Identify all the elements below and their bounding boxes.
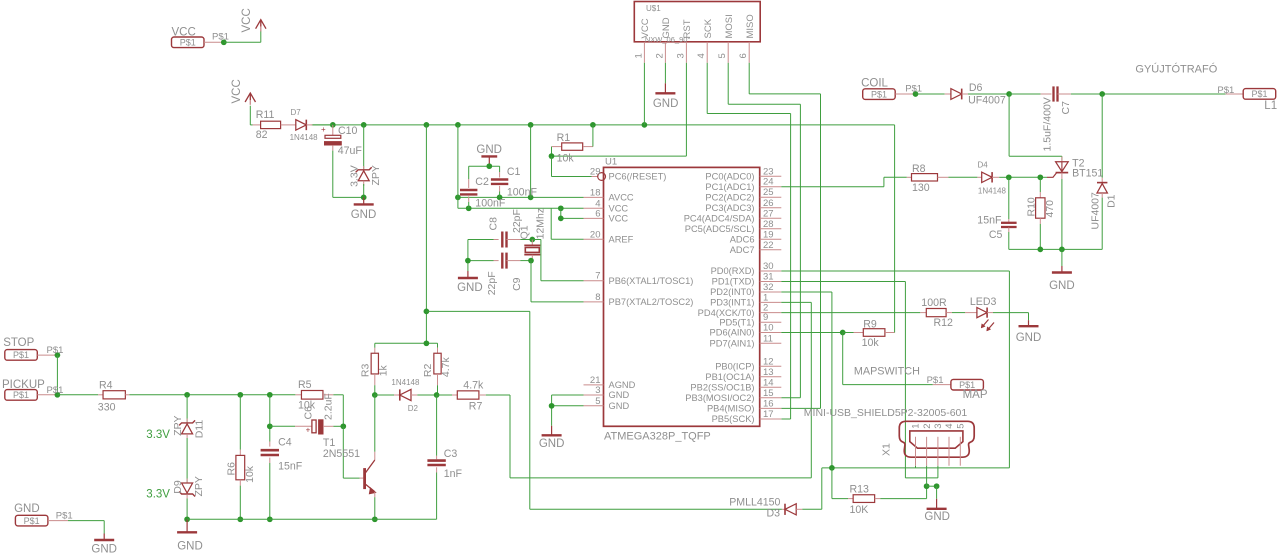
capacitor C5 15nF	[977, 177, 1016, 249]
wire C7-node to T2 anode	[1009, 94, 1062, 161]
pin 1 of X1	[911, 424, 922, 466]
wire cathode rail	[1009, 248, 1102, 250]
pin 3 (RST) of US1	[675, 19, 693, 62]
wire R8 to D4	[948, 176, 977, 178]
wire RST to reset pin	[552, 156, 592, 176]
svg-text:MISO: MISO	[745, 14, 756, 38]
pin 27 (PC4(ADC4/SDA)) of U1	[684, 208, 782, 223]
net label MAPSWITCH	[854, 366, 920, 378]
wire VCC drop to R3/R2 rail	[425, 125, 427, 343]
svg-text:GND: GND	[539, 438, 565, 450]
svg-text:1nF: 1nF	[444, 468, 463, 480]
svg-text:GND: GND	[476, 144, 502, 156]
IC U1 ATMEGA328P_TQFP outline	[604, 157, 760, 443]
wire X1 pin2 down	[926, 466, 928, 487]
wire RXD net (pin30)	[781, 271, 1009, 468]
resistor R2 4.7k	[422, 343, 452, 395]
LED LED3	[952, 296, 997, 331]
svg-text:C7: C7	[1060, 101, 1072, 115]
svg-text:GND: GND	[661, 17, 672, 38]
svg-text:5: 5	[595, 396, 600, 407]
svg-text:LED3: LED3	[970, 296, 997, 308]
pin 2 (PD4(XCK/T0)) of U1	[698, 303, 782, 318]
wire node A to D11	[186, 395, 188, 423]
junction on VCC rail at US1 pin1	[642, 122, 648, 128]
svg-text:+: +	[321, 125, 326, 134]
pin 30 (PD0(RXD)) of U1	[711, 261, 782, 276]
svg-text:C6: C6	[303, 406, 315, 420]
pin 1 (PD3(INT1)) of U1	[710, 292, 781, 307]
svg-text:3: 3	[933, 424, 944, 429]
junction zener/C10 ground node	[361, 195, 367, 201]
svg-text:AVCC: AVCC	[609, 193, 634, 203]
pin 1 (VCC) of US1	[633, 18, 651, 62]
svg-text:47uF: 47uF	[338, 145, 363, 157]
diode D2 1N4148	[375, 378, 437, 413]
pin 11 (PD7(AIN1)) of U1	[710, 333, 782, 348]
svg-text:PB0(ICP): PB0(ICP)	[715, 362, 754, 372]
svg-text:P$1: P$1	[1217, 85, 1234, 96]
svg-text:3.3V: 3.3V	[146, 489, 170, 501]
svg-text:13: 13	[763, 367, 774, 378]
svg-text:PD3(INT1): PD3(INT1)	[710, 298, 754, 308]
ground (zener rail)	[177, 519, 203, 552]
part label MINI-USB	[804, 407, 968, 419]
svg-text:PD2(INT0): PD2(INT0)	[710, 287, 754, 297]
junction VBUS / R13	[829, 465, 835, 471]
svg-text:PD6(AIN0): PD6(AIN0)	[710, 328, 755, 338]
svg-text:AGND: AGND	[609, 380, 636, 390]
wire X1 pin3 down	[937, 466, 939, 478]
wire R7 to INT1 route	[486, 395, 812, 478]
pin 19 (ADC6) of U1	[730, 229, 782, 244]
pin 21 (AGND) of U1	[584, 375, 636, 390]
capacitor C10 47uF (polarized)	[321, 125, 362, 157]
ground (below US1 pin2)	[653, 83, 679, 110]
junction top rail	[424, 340, 430, 346]
svg-text:D9: D9	[172, 480, 184, 494]
svg-text:10K: 10K	[850, 504, 869, 516]
svg-text:PC5(ADC5/SCL): PC5(ADC5/SCL)	[685, 224, 755, 234]
svg-text:GND: GND	[609, 390, 630, 400]
svg-text:3.3V: 3.3V	[348, 165, 360, 187]
wire zener to ground node	[363, 184, 365, 197]
svg-text:PB6(XTAL1/TOSC1): PB6(XTAL1/TOSC1)	[609, 276, 694, 286]
wire R9 right to VCC rail	[894, 125, 896, 333]
svg-text:R1: R1	[557, 132, 571, 144]
svg-text:15: 15	[763, 388, 774, 399]
svg-text:1N4148: 1N4148	[978, 187, 1007, 196]
capacitor C3 1nF	[427, 448, 462, 480]
wire R1 right to VCC rail	[592, 125, 594, 147]
svg-text:C1: C1	[507, 166, 521, 178]
junction XTAL2 node	[528, 258, 534, 264]
ground (LED3)	[1016, 320, 1042, 344]
pin 2 (GND) of US1	[654, 17, 672, 63]
wire VCC drop to AVCC row	[530, 125, 532, 197]
svg-text:4: 4	[944, 424, 955, 429]
wire AVCC row	[458, 196, 584, 198]
wire pin2/gnd link	[927, 485, 937, 487]
svg-text:VCC: VCC	[241, 8, 253, 32]
svg-text:P$1: P$1	[212, 32, 229, 43]
svg-text:GND: GND	[91, 544, 117, 554]
capacitor C2 100nF	[460, 166, 506, 209]
wire R5 to C6-right node	[333, 395, 343, 427]
junction gnd stem on cap rail	[486, 163, 492, 169]
ground (GND flag)	[91, 534, 117, 554]
svg-text:R11: R11	[256, 109, 275, 121]
svg-text:D2: D2	[408, 404, 419, 413]
junction C9 ground leg	[465, 258, 471, 264]
junction AVCC/VCC-drop	[528, 195, 534, 201]
thyristor T2 BT151	[1047, 157, 1103, 180]
pin 29 (PC6(/RESET)) of U1	[590, 167, 666, 182]
wire R13 drop	[832, 468, 848, 499]
svg-text:PC1(ADC1): PC1(ADC1)	[705, 182, 754, 192]
junction gate/R10	[1037, 174, 1043, 180]
svg-text:GND: GND	[14, 503, 40, 515]
svg-text:R13: R13	[850, 484, 870, 496]
junction on VCC rail at x=530.6	[528, 122, 534, 128]
svg-text:PC2(ADC2): PC2(ADC2)	[705, 192, 754, 202]
pin 8 (PB7(XTAL2/TOSC2)) of U1	[584, 292, 694, 307]
wire R13 to X1 pin2 node	[880, 486, 926, 498]
pin 4 (VCC) of U1	[584, 198, 629, 213]
capacitor C9 22pF	[468, 253, 531, 296]
svg-text:R5: R5	[298, 379, 312, 391]
ground (X1)	[924, 499, 950, 523]
wire branch to D3 line	[426, 311, 529, 509]
ground (above C1/C2)	[476, 144, 502, 166]
signal flag STOP (P$1)	[3, 337, 57, 360]
wire C3 to ground rail	[436, 473, 438, 520]
junction AVCC/C1	[497, 195, 503, 201]
power symbol VCC (above R11)	[231, 79, 256, 105]
svg-text:UF4007: UF4007	[1089, 192, 1101, 230]
junction node A / C6 branch	[267, 423, 273, 429]
svg-text:PB5(SCK): PB5(SCK)	[712, 414, 755, 424]
svg-text:P$1: P$1	[871, 89, 887, 99]
svg-text:+: +	[306, 426, 311, 435]
svg-text:VCC: VCC	[609, 214, 629, 224]
svg-text:D11: D11	[194, 420, 206, 439]
pin 6 (VCC) of U1	[584, 208, 629, 223]
svg-text:15nF: 15nF	[278, 461, 303, 473]
wire C10 to zener-bottom node	[333, 151, 364, 198]
svg-text:GND: GND	[924, 511, 950, 523]
svg-text:PC3(ADC3): PC3(ADC3)	[705, 203, 754, 213]
wire TXD net (pin31)	[781, 282, 938, 478]
wire 457.9 vertical	[457, 125, 459, 208]
capacitor C1 100nF	[491, 166, 538, 198]
signal flag COIL (P$1)	[861, 78, 915, 100]
ground (T2 cathode rail)	[1049, 266, 1075, 292]
svg-text:12: 12	[763, 356, 774, 367]
svg-text:1: 1	[633, 53, 644, 58]
pin 15 (PB3(MOSI/OC2)) of U1	[685, 388, 781, 403]
wire D11 to D9	[186, 438, 188, 482]
resistor R4 330	[98, 379, 130, 413]
pin 16 (PB4(MISO)) of U1	[707, 398, 781, 413]
wire VCC branch pin6	[561, 208, 584, 218]
wire LED3 to ground	[993, 313, 1029, 321]
junction D6/C7/T2 node	[1006, 91, 1012, 97]
svg-text:4.7k: 4.7k	[440, 357, 452, 378]
svg-text:GND: GND	[177, 541, 203, 553]
wire R1 left into RST net	[551, 147, 553, 157]
junction ground rail / R6	[237, 516, 243, 522]
connector US1 outline	[634, 2, 760, 45]
svg-text:PB1(OC1A): PB1(OC1A)	[705, 372, 754, 382]
signal flag L1 (P$1)	[1217, 85, 1277, 112]
svg-text:P$1: P$1	[13, 390, 29, 400]
svg-text:12Mhz: 12Mhz	[534, 208, 546, 240]
svg-text:PD1(TXD): PD1(TXD)	[712, 277, 755, 287]
pin 22 (ADC7) of U1	[730, 240, 782, 255]
svg-text:14: 14	[763, 377, 774, 388]
wire D3 to VBUS net	[802, 468, 822, 509]
junction on VCC rail at x=457.9	[455, 122, 461, 128]
svg-text:R6: R6	[225, 462, 237, 476]
svg-text:COIL: COIL	[861, 78, 888, 90]
signal flag PICKUP (P$1)	[2, 379, 57, 400]
svg-text:PD0(RXD): PD0(RXD)	[711, 266, 755, 276]
svg-text:P$1: P$1	[905, 84, 922, 95]
wire RST net US1 pin3	[552, 63, 687, 156]
wire base drop	[343, 426, 359, 478]
svg-text:PB7(XTAL2/TOSC2): PB7(XTAL2/TOSC2)	[609, 297, 694, 307]
junction on VCC rail at x=426.7	[424, 122, 430, 128]
wire INT0 net (pin32)	[781, 292, 832, 468]
junction GND pin5	[549, 403, 555, 409]
wire AIN0 net (pin10)	[781, 332, 842, 334]
pin 3 of X1	[933, 424, 944, 466]
junction C6 right / base	[340, 423, 346, 429]
pin 5 of X1	[956, 424, 967, 466]
resistor R9 10k	[843, 318, 895, 349]
svg-text:3.3V: 3.3V	[146, 429, 170, 441]
svg-text:1: 1	[911, 424, 922, 429]
svg-text:PD7(AIN1): PD7(AIN1)	[710, 339, 755, 349]
resistor R12 100R	[920, 297, 953, 329]
svg-text:STOP: STOP	[3, 337, 34, 349]
wire cap ground rail	[469, 165, 500, 167]
svg-text:C2: C2	[475, 176, 489, 188]
wire INT1 net (pin1)	[781, 302, 811, 478]
net label GYUJTOTRAFO	[1135, 63, 1217, 76]
diode D6 UF4007	[945, 82, 1006, 107]
diode D4 1N4148	[977, 161, 1006, 196]
ground (crystal caps)	[457, 271, 483, 294]
svg-text:6: 6	[738, 53, 749, 58]
wire bottom ground rail	[187, 518, 437, 520]
svg-text:R12: R12	[934, 317, 954, 329]
wire VCC branch to D3	[530, 508, 782, 510]
wire node to ground	[936, 486, 938, 499]
svg-text:31: 31	[763, 272, 774, 283]
svg-text:P$1: P$1	[1251, 89, 1267, 99]
svg-text:GND: GND	[1049, 280, 1075, 292]
svg-text:ZPY: ZPY	[193, 476, 205, 496]
svg-text:2N5551: 2N5551	[323, 448, 360, 460]
wire VCC flag to VCC symbol	[224, 31, 261, 43]
transistor T1 2N5551	[323, 437, 376, 497]
pin 7 (PB6(XTAL1/TOSC1)) of U1	[584, 271, 694, 286]
pin 31 (PD1(TXD)) of U1	[712, 272, 782, 287]
svg-text:10: 10	[763, 323, 774, 334]
wire C8/C9 ground leg	[467, 240, 469, 272]
svg-text:R4: R4	[99, 379, 113, 391]
svg-text:ADC6: ADC6	[730, 235, 755, 245]
svg-text:P$1: P$1	[180, 38, 196, 48]
resistor R7 4.7k	[437, 380, 486, 413]
resistor R1 10k	[552, 132, 593, 164]
wire D4 to T2 gate	[999, 176, 1047, 178]
pin 5 (GND) of U1	[584, 396, 630, 411]
wire node C to C3	[436, 395, 438, 456]
svg-text:10k: 10k	[244, 465, 256, 483]
svg-text:17: 17	[763, 409, 774, 420]
svg-text:PB3(MOSI/OC2): PB3(MOSI/OC2)	[685, 393, 754, 403]
svg-text:C10: C10	[338, 125, 358, 137]
svg-text:3: 3	[675, 53, 686, 58]
wire X1 pin1 tail	[915, 466, 917, 468]
pin 28 (PC5(ADC5/SCL)) of U1	[685, 219, 782, 234]
resistor R8 130	[907, 163, 949, 194]
junction AIN0/R9/MAP	[840, 330, 846, 336]
ground (chip GND pins)	[539, 426, 565, 450]
wire D6 to C7 node	[968, 93, 1009, 95]
svg-text:18: 18	[590, 187, 601, 198]
pin 17 (PB5(SCK)) of U1	[712, 409, 782, 424]
junction node A / R6	[237, 392, 243, 398]
junction VCC row C2	[466, 205, 472, 211]
pin 24 (PC1(ADC1)) of U1	[705, 177, 781, 192]
svg-text:GND: GND	[351, 209, 377, 221]
svg-text:UF4007: UF4007	[968, 95, 1006, 107]
resistor R11	[253, 109, 281, 141]
svg-text:D1: D1	[1105, 194, 1117, 208]
wire R3/R2 top rail	[375, 342, 438, 344]
zener diode ZPY 3.3V (top)	[348, 165, 382, 187]
svg-text:R2: R2	[422, 364, 434, 378]
junction ground rail / D9	[184, 516, 190, 522]
svg-text:P$1: P$1	[927, 375, 944, 386]
svg-text:130: 130	[912, 182, 930, 194]
pin 12 (PB0(ICP)) of U1	[715, 356, 781, 371]
wire VBUS line	[822, 467, 1010, 469]
supply flag VCC (P$1)	[172, 27, 205, 48]
svg-text:PB4(MISO): PB4(MISO)	[707, 404, 755, 414]
svg-text:RST: RST	[682, 19, 693, 38]
junction on VCC rail at R1	[590, 122, 596, 128]
wire AREF to VCC rail	[551, 208, 583, 239]
svg-text:MAP: MAP	[963, 389, 988, 401]
svg-text:U1: U1	[605, 157, 617, 168]
junction on VCC rail at C10	[330, 122, 336, 128]
resistor R5 10k	[295, 379, 333, 412]
svg-text:8: 8	[595, 292, 600, 303]
resistor R13 10K	[848, 484, 880, 516]
svg-text:D3: D3	[767, 507, 781, 519]
svg-text:VCC: VCC	[609, 204, 629, 214]
wire PC1 to R8 (jog)	[781, 177, 907, 186]
svg-text:AREF: AREF	[609, 235, 634, 245]
junction XTAL1 node	[529, 237, 535, 243]
pin 32 (PD2(INT0)) of U1	[710, 282, 781, 297]
svg-text:PB2(SS/OC1B): PB2(SS/OC1B)	[690, 383, 754, 393]
wire pickup node A	[129, 394, 295, 396]
svg-text:22: 22	[763, 240, 774, 251]
svg-text:4: 4	[696, 53, 707, 58]
resistor R3 1k	[360, 343, 390, 395]
svg-text:2.2uF: 2.2uF	[323, 393, 335, 420]
wire COIL to D6	[916, 93, 945, 95]
junction COIL flag	[905, 84, 922, 97]
capacitor C4 15nF	[261, 395, 303, 520]
svg-text:PD4(XCK/T0): PD4(XCK/T0)	[698, 308, 755, 318]
junction STOP flag	[47, 345, 64, 358]
junction rail/R10	[1037, 247, 1043, 253]
wire D9 to ground rail	[186, 499, 188, 520]
svg-text:R10: R10	[1026, 197, 1038, 216]
junction PICKUP flag	[47, 385, 64, 397]
svg-text:1N4148: 1N4148	[391, 378, 420, 387]
zener diode D11 ZPY 3.3V	[146, 415, 205, 441]
svg-text:VCC: VCC	[640, 18, 651, 38]
svg-text:15nF: 15nF	[977, 215, 1002, 227]
wire US1 pin2 to ground	[664, 63, 666, 84]
svg-text:P$1: P$1	[47, 345, 64, 356]
resistor R6 10k	[225, 395, 256, 520]
svg-text:L1: L1	[1264, 100, 1277, 112]
svg-text:X1: X1	[881, 443, 893, 456]
junction pin6 branch	[558, 216, 564, 222]
signal flag GND (P$1)	[14, 503, 73, 526]
svg-text:24: 24	[763, 177, 774, 188]
pin 26 (PC3(ADC3)) of U1	[705, 198, 781, 213]
svg-text:C5: C5	[989, 229, 1003, 241]
svg-text:C4: C4	[278, 437, 292, 449]
diode D7 1N4148	[281, 108, 333, 142]
wire flag VCC to junction	[204, 41, 224, 43]
svg-text:R9: R9	[863, 318, 877, 330]
pin 2 of X1	[922, 424, 933, 466]
svg-text:R3: R3	[360, 364, 372, 378]
svg-text:VCC: VCC	[172, 27, 196, 39]
wire VCC symbol to R11	[250, 106, 252, 125]
svg-text:U$1: U$1	[646, 4, 661, 13]
wire C8 to crystal top	[520, 239, 532, 241]
svg-text:27: 27	[763, 208, 774, 219]
svg-text:16: 16	[763, 398, 774, 409]
junction rail/T2-cathode	[1059, 247, 1065, 253]
svg-text:R8: R8	[912, 163, 926, 175]
wire VCC rail to zener	[363, 125, 365, 169]
pin 13 (PB1(OC1A)) of U1	[705, 367, 781, 382]
svg-text:2: 2	[922, 424, 933, 429]
svg-text:3: 3	[595, 385, 600, 396]
svg-text:25: 25	[763, 187, 774, 198]
junction node A / D11	[184, 392, 190, 398]
svg-text:28: 28	[763, 219, 774, 230]
svg-text:4.7k: 4.7k	[463, 380, 484, 392]
wire PICKUP to R4	[57, 394, 98, 396]
wire MAPSWITCH net	[843, 333, 933, 385]
crystal Q1 12Mhz	[519, 208, 547, 261]
svg-text:5: 5	[956, 424, 967, 429]
